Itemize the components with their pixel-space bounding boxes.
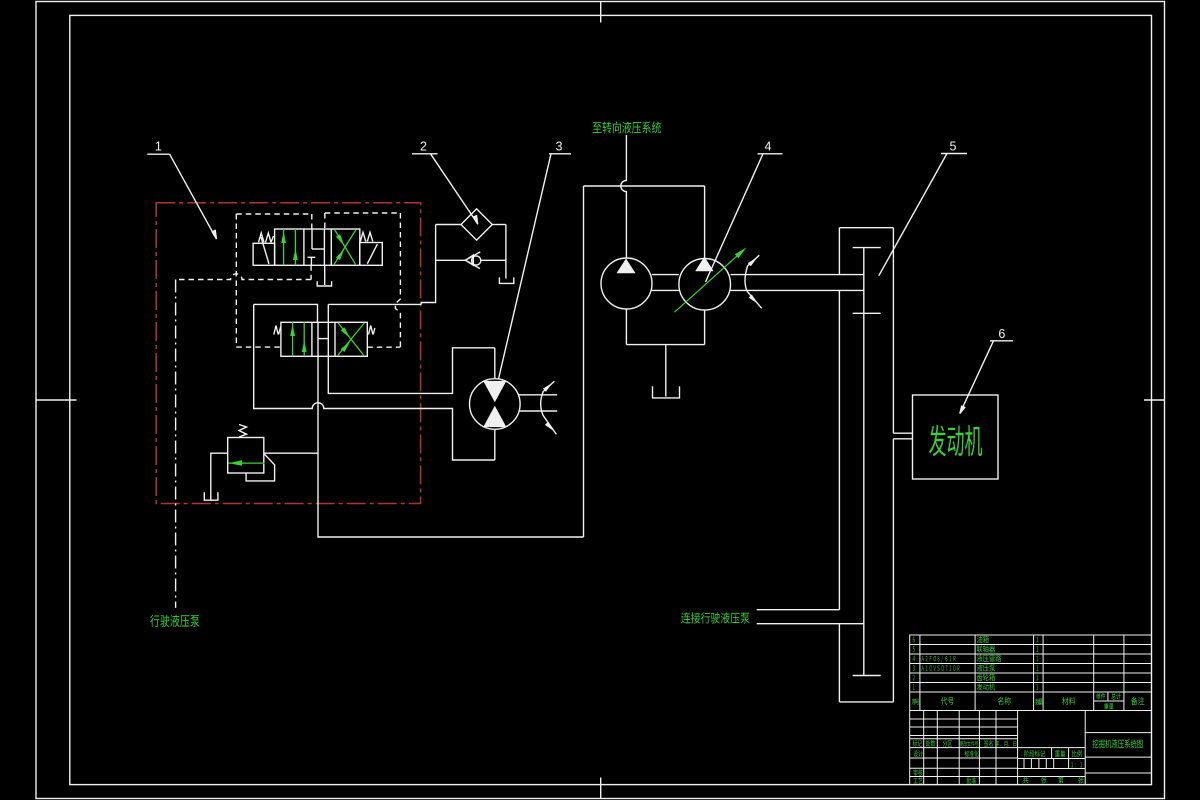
relief valve spring — [239, 425, 247, 438]
centering mark top — [600, 2, 602, 23]
leader 1 — [147, 154, 216, 239]
valve V2 cell2 risers and H bar — [318, 322, 328, 356]
relief tank symbol — [204, 492, 218, 500]
diamond (filter) — [461, 209, 492, 240]
relief valve RV body — [228, 438, 264, 474]
check assembly left drop — [421, 225, 435, 305]
check assembly top line with diamond — [436, 224, 506, 226]
svg-text:1: 1 — [155, 140, 162, 154]
gearbox box — [839, 228, 893, 702]
pump rotation arrows — [745, 255, 762, 308]
valve V1 cell2 blocked-center symbols — [308, 229, 325, 265]
relief valve right port to T line — [264, 452, 318, 454]
dashed pilot line to travel pumps with jump over enclosure edge — [176, 274, 312, 280]
valve V2 cell3 green crossed arrows — [338, 323, 365, 356]
leader 6 — [960, 341, 1013, 414]
motor rotation arrows — [541, 381, 557, 434]
valve V2 body — [281, 322, 367, 356]
svg-text:6: 6 — [998, 327, 1005, 341]
motor shaft stubs — [519, 395, 558, 411]
centering mark right — [1144, 399, 1165, 401]
valve V1 left spring — [259, 233, 274, 242]
valve V1 right solenoid box — [360, 243, 383, 266]
label connect travel pumps — [681, 612, 749, 623]
gearbox shaft tick mid — [853, 312, 881, 314]
svg-text:3: 3 — [556, 140, 563, 154]
title block signature texts — [913, 740, 922, 746]
valve V1 tank port and symbol — [317, 265, 331, 286]
check valve symbol — [436, 252, 506, 269]
steering pump P1 circle — [601, 258, 652, 309]
valve V1 right spring — [360, 232, 373, 241]
leader 4 — [706, 154, 783, 282]
wire T: valve V2 bottom port long drop to return line — [318, 356, 584, 537]
valve V1 cell3 green crossed arrows — [334, 230, 356, 265]
dashed enclosure left (pilot sub-assembly) — [236, 214, 311, 347]
lower shaft to travel pumps — [757, 610, 864, 624]
dash-dot centerline down to travel pump label — [175, 280, 177, 608]
check assembly right drop to tank — [505, 225, 507, 279]
leader 3 — [499, 154, 572, 379]
motor wedge top — [483, 381, 506, 402]
motor wedge bottom — [483, 406, 506, 427]
check assembly tank symbol — [499, 277, 513, 283]
title block grid — [910, 635, 1152, 785]
pump P2 triangle — [695, 257, 713, 272]
leader 2 — [412, 154, 478, 224]
wire B: left vertical down and across to motor bottom loop (jump over T line) — [254, 304, 495, 460]
svg-text:5: 5 — [950, 140, 957, 154]
main pump P2 circle — [679, 259, 731, 311]
gearbox internal shaft line — [863, 248, 865, 676]
pump P2 variable green arrow — [675, 248, 747, 313]
engine label 发动机 — [929, 425, 982, 457]
pump supply top line — [584, 185, 705, 187]
wire A: valve V2 left-bottom riser to motor top loop — [328, 348, 495, 394]
valve V2 right spring — [369, 326, 375, 335]
label travel hydraulic pump — [150, 615, 199, 628]
red dash-dot enclosure box of valve block 1 — [156, 203, 420, 504]
gearbox shaft tick bottom — [853, 675, 881, 677]
leader 5 — [879, 154, 967, 276]
relief valve bottom pilot loop — [246, 454, 275, 481]
valve V2 left spring — [274, 326, 281, 335]
valve V1 cell1 green parallel arrows — [281, 229, 298, 265]
motor M circle — [470, 379, 521, 430]
valve V1 left solenoid box — [253, 237, 275, 265]
valve V2 cell1 green parallel arrows — [290, 322, 306, 356]
gearbox shaft tick top — [853, 247, 881, 249]
drawing title — [1093, 739, 1143, 748]
svg-text:4: 4 — [765, 140, 772, 154]
svg-text:2: 2 — [420, 140, 427, 154]
pump suction manifold — [626, 309, 704, 397]
relief valve left port to tank — [211, 453, 228, 500]
pump P1 outlet line with jump — [621, 135, 627, 258]
motor bottom port — [494, 429, 496, 460]
relief valve green arrow — [229, 460, 265, 466]
wire W2: valve V2 right riser to check valve drain — [328, 303, 421, 305]
pump P1 triangle — [617, 259, 636, 274]
centering mark bottom — [600, 778, 602, 799]
valve V1 body — [275, 229, 360, 265]
pump P2 outlet line — [704, 186, 706, 258]
dashed enclosure right — [325, 213, 401, 347]
pump shaft between P1 P2 — [652, 275, 679, 291]
pump suction tank symbol — [653, 386, 680, 398]
engine box — [913, 395, 999, 479]
motor top port — [494, 348, 496, 379]
engine shaft — [893, 433, 912, 439]
wire W1: P line from left drop to valve V2 left riser — [254, 304, 318, 322]
pump shaft to gearbox — [731, 275, 864, 291]
title block parts list texts — [913, 637, 915, 643]
centering mark left — [36, 399, 77, 401]
label to steering hydraulic system — [593, 121, 661, 133]
pump pressure drop line — [583, 186, 585, 537]
